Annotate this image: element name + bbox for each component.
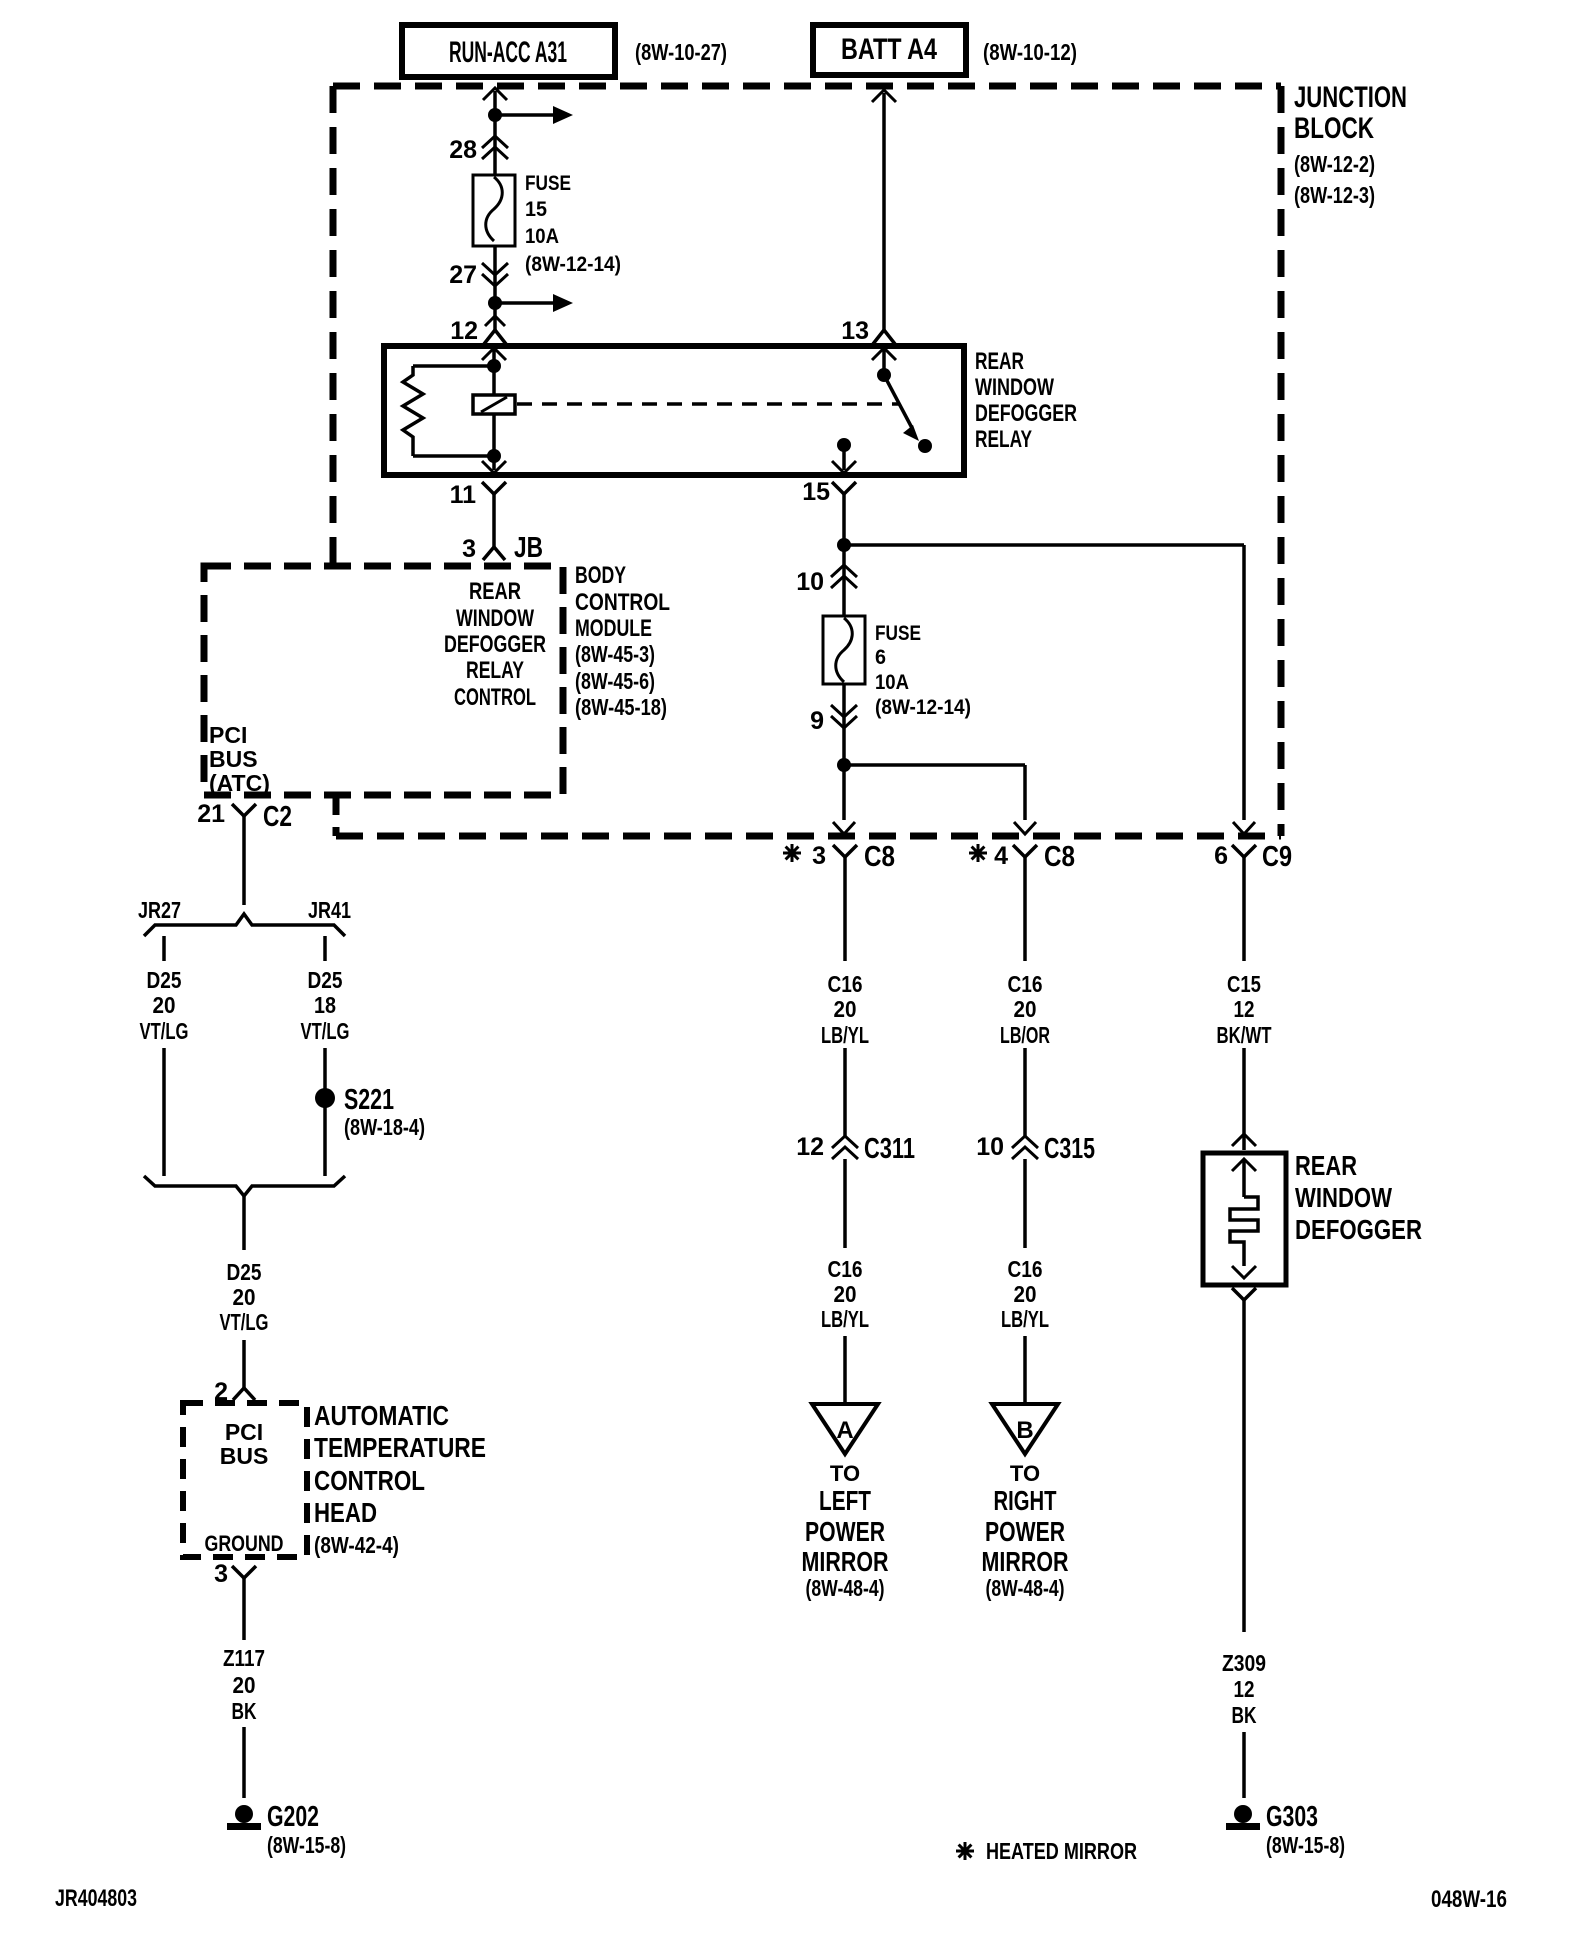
svg-text:C16: C16 (828, 1256, 863, 1282)
svg-text:C9: C9 (1262, 841, 1292, 873)
svg-text:MIRROR: MIRROR (982, 1546, 1069, 1577)
svg-text:VT/LG: VT/LG (301, 1018, 350, 1044)
svg-text:RELAY: RELAY (466, 657, 524, 684)
connector pin 10 chevrons (831, 565, 857, 588)
svg-text:JR27: JR27 (138, 897, 181, 923)
svg-text:15: 15 (525, 198, 547, 221)
svg-text:B: B (1016, 1417, 1033, 1444)
svg-text:20: 20 (1014, 996, 1037, 1022)
svg-text:3: 3 (462, 535, 476, 563)
svg-text:PCI: PCI (225, 1419, 263, 1445)
svg-text:DEFOGGER: DEFOGGER (444, 631, 546, 658)
connector pin 9 chevrons (831, 705, 857, 728)
note heated mirror (956, 1838, 1137, 1864)
arrow up into BATT A4 (872, 90, 896, 102)
wire to triangle A (843, 1336, 847, 1404)
connector C9 pin 6 (1232, 845, 1256, 872)
svg-text:C16: C16 (828, 971, 863, 997)
svg-text:20: 20 (1014, 1281, 1037, 1307)
wire label C15 12 BK/WT (1217, 971, 1272, 1048)
svg-text:(8W-12-14): (8W-12-14) (875, 696, 971, 719)
svg-text:C8: C8 (864, 841, 895, 873)
svg-text:10A: 10A (525, 225, 559, 248)
feed box BATT A4 (813, 25, 966, 75)
svg-text:BK: BK (1232, 1702, 1257, 1728)
pin 10 (796, 568, 824, 596)
wire JR27 stub (162, 936, 166, 961)
designator C8 (left) (864, 841, 895, 873)
label to right power mirror (982, 1461, 1069, 1601)
svg-text:9: 9 (810, 707, 824, 735)
svg-text:POWER: POWER (805, 1516, 885, 1547)
wire label C16 20 LB/OR (1000, 971, 1050, 1048)
label (8W-10-12) (983, 39, 1077, 65)
wire to C311 (843, 1048, 847, 1136)
svg-text:BK: BK (232, 1698, 257, 1724)
svg-text:C2: C2 (263, 801, 292, 833)
connector C8 pin 4 (1013, 845, 1037, 872)
connector pin 2 (233, 1376, 255, 1400)
pin 28 (449, 136, 477, 164)
svg-text:VT/LG: VT/LG (140, 1018, 189, 1044)
wire C9-6 down (1242, 872, 1246, 961)
branch arrow right (501, 106, 573, 124)
svg-text:(8W-45-3): (8W-45-3) (575, 641, 655, 667)
svg-text:28: 28 (449, 136, 477, 164)
svg-text:LB/OR: LB/OR (1000, 1022, 1050, 1048)
svg-text:11: 11 (450, 481, 477, 509)
svg-text:LB/YL: LB/YL (821, 1022, 869, 1048)
svg-text:C16: C16 (1008, 971, 1043, 997)
svg-text:REAR: REAR (469, 578, 521, 605)
ground G202 symbol (227, 1805, 261, 1830)
svg-text:(8W-15-8): (8W-15-8) (1266, 1832, 1345, 1858)
wire down to C8 pin 4 (1023, 765, 1027, 820)
wire below C315 (1023, 1159, 1027, 1248)
wire down to C9 (1242, 545, 1246, 820)
svg-text:10: 10 (976, 1133, 1004, 1161)
connector below defogger / wire (1232, 1288, 1256, 1632)
fuse 15 label (525, 172, 621, 276)
svg-text:S221: S221 (344, 1084, 394, 1116)
GROUND label (205, 1531, 284, 1556)
splice brace bottom (144, 1176, 345, 1196)
asterisk heated mirror note (right) (969, 844, 987, 862)
svg-text:(8W-12-2): (8W-12-2) (1294, 151, 1375, 177)
svg-text:BK/WT: BK/WT (1217, 1022, 1272, 1048)
connector pin 13 (873, 330, 895, 344)
svg-text:MODULE: MODULE (575, 615, 652, 642)
svg-text:GROUND: GROUND (205, 1531, 284, 1556)
wire label Z117 20 BK (223, 1645, 265, 1724)
svg-text:BATT A4: BATT A4 (841, 33, 937, 66)
designator C2 (263, 801, 292, 833)
feed box RUN-ACC A31 (402, 25, 615, 77)
pin 3 C8 (812, 842, 826, 870)
svg-text:10: 10 (796, 568, 824, 596)
svg-text:21: 21 (197, 800, 225, 828)
svg-text:(8W-45-6): (8W-45-6) (575, 668, 655, 694)
off-page connector B (992, 1404, 1058, 1454)
svg-text:15: 15 (802, 478, 830, 506)
svg-text:D25: D25 (227, 1259, 262, 1285)
relay label (975, 348, 1077, 453)
designator C9 (1262, 841, 1292, 873)
connector pin 27 chevrons (482, 263, 508, 286)
wire to G202 (242, 1727, 246, 1798)
junction block right dashed border (1278, 86, 1285, 836)
connector pin 3 (483, 547, 505, 560)
off-page connector A (812, 1404, 878, 1454)
connector C8 pin 3 (833, 845, 857, 872)
pin 2 (214, 1378, 228, 1406)
svg-text:048W-16: 048W-16 (1431, 1886, 1507, 1913)
svg-text:JR404803: JR404803 (55, 1885, 137, 1912)
svg-text:4: 4 (994, 842, 1008, 870)
svg-text:JUNCTION: JUNCTION (1294, 81, 1407, 114)
wire to G303 (1242, 1732, 1246, 1798)
connector C2 pin 21 / wire (232, 804, 256, 905)
svg-text:RIGHT: RIGHT (994, 1485, 1057, 1516)
junction block left dashed border (330, 86, 337, 566)
relay K1 rear window defogger (384, 346, 964, 475)
svg-text:(8W-12-14): (8W-12-14) (525, 253, 621, 276)
splice brace top (144, 914, 345, 936)
wire below C311 (843, 1159, 847, 1248)
svg-text:(8W-10-27): (8W-10-27) (635, 39, 727, 65)
svg-text:C15: C15 (1227, 971, 1261, 997)
pin 12 C311 (796, 1133, 824, 1161)
svg-text:BODY: BODY (575, 562, 626, 589)
svg-text:HEAD: HEAD (314, 1497, 377, 1528)
svg-text:13: 13 (841, 317, 869, 345)
label S221 (344, 1084, 425, 1140)
svg-text:RUN-ACC A31: RUN-ACC A31 (449, 36, 567, 69)
connector pin 11 / wire to JB (482, 482, 506, 547)
pin 11 (450, 481, 477, 509)
svg-text:WINDOW: WINDOW (1295, 1182, 1392, 1213)
svg-text:20: 20 (233, 1284, 256, 1310)
junction dot (488, 296, 502, 310)
label G202 (267, 1801, 346, 1858)
svg-text:FUSE: FUSE (875, 622, 921, 645)
svg-text:18: 18 (314, 992, 336, 1018)
svg-text:20: 20 (233, 1672, 256, 1698)
svg-text:WINDOW: WINDOW (975, 374, 1054, 401)
fuse 6 label (875, 622, 971, 719)
wire label C16 20 LB/YL (821, 971, 869, 1048)
junction block top dashed border (333, 83, 1281, 90)
arrow into C9 pin 6 (1233, 822, 1255, 834)
PCI BUS (ATC) label (209, 722, 270, 796)
pin 21 (197, 800, 225, 828)
wire RUN-ACC A31 to relay pin 12 (493, 91, 497, 330)
wire JR41 lower (323, 1048, 327, 1176)
svg-text:CONTROL: CONTROL (454, 684, 536, 711)
connector chevron above defogger (1232, 1134, 1256, 1146)
svg-text:WINDOW: WINDOW (456, 605, 534, 632)
pin 12 (450, 317, 478, 345)
svg-text:HEATED MIRROR: HEATED MIRROR (986, 1838, 1137, 1864)
body control module label (575, 562, 670, 720)
svg-text:FUSE: FUSE (525, 172, 571, 195)
fuse 6 (823, 616, 865, 684)
ground G303 symbol (1226, 1805, 1260, 1830)
svg-text:D25: D25 (147, 967, 182, 993)
wire to triangle B (1023, 1336, 1027, 1404)
wire label C16 20 LB/YL right (1001, 1256, 1049, 1332)
svg-text:12: 12 (450, 317, 478, 345)
junction block label (1294, 81, 1407, 208)
BCM relay control label (444, 578, 546, 711)
wire BATT A4 to relay pin 13 (882, 93, 886, 330)
svg-text:VT/LG: VT/LG (220, 1309, 269, 1335)
designator JB (514, 532, 543, 564)
svg-text:6: 6 (1214, 842, 1228, 870)
pin 3 (462, 535, 476, 563)
svg-text:C16: C16 (1008, 1256, 1043, 1282)
wire label Z309 12 BK (1222, 1650, 1266, 1728)
svg-text:MIRROR: MIRROR (802, 1546, 889, 1577)
arrow into C8 pin 4 (1014, 822, 1036, 834)
wire C8-3 down (843, 872, 847, 961)
svg-text:Z309: Z309 (1222, 1650, 1266, 1676)
label JR41 (308, 897, 351, 923)
svg-text:RELAY: RELAY (975, 426, 1032, 453)
pin 6 C9 (1214, 842, 1228, 870)
pin 15 (802, 478, 830, 506)
svg-text:(8W-18-4): (8W-18-4) (344, 1114, 425, 1140)
junction dot to C9 branch (837, 538, 851, 552)
pin 27 (449, 261, 477, 289)
designator C8 (right) (1044, 841, 1075, 873)
wire to ATC pin 2 (242, 1340, 246, 1376)
svg-text:(8W-10-12): (8W-10-12) (983, 39, 1077, 65)
junction dot to right mirror branch (837, 758, 851, 772)
connector pin 3 / wire (232, 1566, 256, 1640)
svg-text:AUTOMATIC: AUTOMATIC (314, 1400, 449, 1431)
svg-text:G303: G303 (1266, 1801, 1318, 1833)
wire to C315 (1023, 1048, 1027, 1136)
designator C311 (864, 1133, 915, 1165)
svg-text:G202: G202 (267, 1801, 319, 1833)
junction block bottom dashed border (336, 833, 1281, 840)
svg-text:12: 12 (1234, 1676, 1255, 1702)
arrow into C8 pin 3 (833, 822, 855, 834)
svg-text:JB: JB (514, 532, 543, 564)
rear window defogger label (1295, 1150, 1422, 1245)
svg-text:CONTROL: CONTROL (314, 1465, 425, 1496)
rear window defogger grid (1203, 1153, 1286, 1285)
svg-text:(ATC): (ATC) (209, 770, 270, 796)
svg-text:(8W-42-4): (8W-42-4) (314, 1532, 399, 1558)
connector pin 12 (484, 316, 506, 344)
connector C315 chevrons (1012, 1136, 1038, 1159)
svg-text:Z117: Z117 (223, 1645, 265, 1671)
svg-text:REAR: REAR (1295, 1150, 1357, 1181)
svg-text:BLOCK: BLOCK (1294, 112, 1374, 145)
label JR27 (138, 897, 181, 923)
svg-text:10A: 10A (875, 671, 909, 694)
svg-text:(8W-45-18): (8W-45-18) (575, 694, 667, 720)
asterisk heated mirror note (left) (783, 844, 801, 862)
wire label D25 20 VT/LG (220, 1259, 269, 1335)
svg-text:27: 27 (449, 261, 477, 289)
svg-text:3: 3 (812, 842, 826, 870)
junction dot (488, 108, 502, 122)
wire to defogger (1242, 1048, 1246, 1150)
svg-text:3: 3 (214, 1560, 228, 1588)
connector C311 chevrons (832, 1136, 858, 1159)
wire to rear defogger feed (844, 543, 1244, 547)
junction block left-bottom dashed stub (333, 795, 340, 836)
svg-text:BUS: BUS (209, 746, 258, 772)
arrow up into RUN-ACC A31 (483, 88, 507, 100)
label (8W-10-27) (635, 39, 727, 65)
svg-text:POWER: POWER (985, 1516, 1065, 1547)
wire to right mirror (844, 763, 1025, 767)
label to left power mirror (802, 1461, 889, 1601)
svg-text:12: 12 (796, 1133, 824, 1161)
fuse 15 (473, 175, 515, 246)
splice S221 (315, 1088, 335, 1108)
connector pin 15 / wire down (832, 482, 856, 820)
pin 4 C8 (994, 842, 1008, 870)
svg-text:BUS: BUS (220, 1443, 269, 1469)
designator C315 (1044, 1133, 1095, 1165)
wire below brace (242, 1196, 246, 1250)
svg-text:C8: C8 (1044, 841, 1075, 873)
svg-text:TEMPERATURE: TEMPERATURE (314, 1432, 486, 1463)
branch arrow right (501, 294, 573, 312)
svg-text:LB/YL: LB/YL (1001, 1306, 1049, 1332)
svg-text:LB/YL: LB/YL (821, 1306, 869, 1332)
svg-text:TO: TO (830, 1461, 860, 1486)
svg-text:20: 20 (153, 992, 176, 1018)
svg-text:LEFT: LEFT (819, 1485, 871, 1516)
PCI BUS label (220, 1419, 269, 1469)
sheet number JR404803 (55, 1885, 137, 1912)
label G303 (1266, 1801, 1345, 1858)
svg-text:CONTROL: CONTROL (575, 589, 670, 616)
svg-text:C315: C315 (1044, 1133, 1095, 1165)
svg-text:A: A (836, 1417, 853, 1444)
wire C8-4 down (1023, 872, 1027, 961)
svg-text:(8W-48-4): (8W-48-4) (806, 1575, 885, 1601)
wire label D25 20 VT/LG left (140, 967, 189, 1044)
pin 13 (841, 317, 869, 345)
wire label C16 20 LB/YL lower (821, 1256, 869, 1332)
wire label D25 18 VT/LG right (301, 967, 350, 1044)
wire JR27 lower (162, 1048, 166, 1176)
svg-text:PCI: PCI (209, 722, 247, 748)
svg-text:6: 6 (875, 646, 886, 669)
svg-text:DEFOGGER: DEFOGGER (975, 400, 1077, 427)
sheet number 048W-16 (1431, 1886, 1507, 1913)
svg-text:REAR: REAR (975, 348, 1024, 375)
svg-text:JR41: JR41 (308, 897, 351, 923)
svg-text:DEFOGGER: DEFOGGER (1295, 1214, 1422, 1245)
automatic temperature control head dashed box (183, 1403, 307, 1557)
automatic temperature control head label (314, 1400, 486, 1558)
svg-text:C311: C311 (864, 1133, 915, 1165)
svg-text:(8W-12-3): (8W-12-3) (1294, 182, 1375, 208)
wire JR41 stub (323, 936, 327, 961)
svg-text:TO: TO (1010, 1461, 1040, 1486)
svg-text:20: 20 (834, 996, 857, 1022)
svg-text:20: 20 (834, 1281, 857, 1307)
body control module dashed box (204, 566, 563, 795)
svg-text:12: 12 (1234, 996, 1255, 1022)
pin 9 (810, 707, 824, 735)
connector pin 28 chevrons (482, 136, 508, 159)
svg-text:(8W-48-4): (8W-48-4) (986, 1575, 1065, 1601)
svg-text:(8W-15-8): (8W-15-8) (267, 1832, 346, 1858)
pin 10 C315 (976, 1133, 1004, 1161)
pin 3 ATC (214, 1560, 228, 1588)
svg-text:D25: D25 (308, 967, 343, 993)
